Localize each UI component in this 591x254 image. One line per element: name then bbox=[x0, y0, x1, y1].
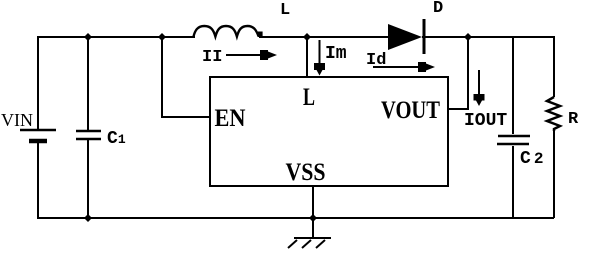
svg-text:C1: C1 bbox=[107, 129, 126, 149]
wire VSS to ground bbox=[312, 186, 314, 238]
wire top rail middle segment bbox=[259, 36, 388, 38]
wire R branch lower bbox=[553, 131, 555, 218]
svg-text:Im: Im bbox=[325, 44, 347, 64]
resistor R zigzag bbox=[547, 97, 560, 131]
capacitor C1 bbox=[76, 131, 101, 139]
node junction top-L bbox=[303, 33, 311, 41]
node junction top-EN bbox=[158, 33, 166, 41]
svg-text:IOUT: IOUT bbox=[464, 111, 507, 131]
current arrow Id bbox=[373, 62, 435, 72]
IC box outline bbox=[210, 77, 448, 186]
svg-text:L: L bbox=[303, 84, 315, 111]
inductor L coil bbox=[194, 26, 259, 37]
wire left vertical from top rail to battery bbox=[37, 37, 39, 129]
current arrow IOUT bbox=[474, 70, 485, 106]
wire top rail right segment bbox=[422, 36, 555, 38]
svg-text:VOUT: VOUT bbox=[381, 97, 440, 124]
battery VIN bbox=[20, 130, 56, 141]
wire bottom rail bbox=[37, 217, 554, 219]
current arrow Im bbox=[314, 40, 325, 76]
wire C2 branch lower bbox=[512, 146, 514, 218]
svg-text:L: L bbox=[280, 1, 290, 20]
node junction bottom-VSS bbox=[309, 214, 317, 222]
wire top rail left segment bbox=[37, 36, 195, 38]
wire R branch upper bbox=[553, 36, 555, 97]
current arrow II bbox=[226, 50, 277, 60]
node junction top-VOUT bbox=[464, 33, 472, 41]
svg-text:II: II bbox=[202, 48, 222, 67]
svg-text:VSS: VSS bbox=[286, 159, 326, 186]
svg-text:D: D bbox=[433, 0, 443, 18]
diode D bbox=[388, 19, 424, 54]
wire VOUT branch bbox=[448, 37, 468, 109]
inductor terminal square bbox=[258, 32, 263, 38]
capacitor C2 bbox=[497, 136, 530, 144]
wire C2 branch upper bbox=[512, 37, 514, 134]
wire L pin branch bbox=[306, 37, 308, 78]
wire battery negative to bottom rail bbox=[37, 143, 39, 218]
node junction bottom-C1 bbox=[84, 214, 92, 222]
wire C1 branch lower bbox=[87, 140, 89, 218]
svg-text:R: R bbox=[568, 110, 579, 129]
wire C1 branch upper bbox=[87, 37, 89, 130]
svg-text:EN: EN bbox=[215, 105, 246, 132]
node junction top-C1 bbox=[84, 33, 92, 41]
wire EN branch bbox=[162, 37, 210, 117]
ground bbox=[288, 238, 331, 248]
svg-text:VIN: VIN bbox=[1, 110, 33, 130]
